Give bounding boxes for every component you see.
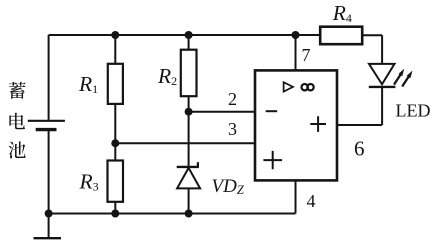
battery GB long plate (+) bbox=[28, 120, 65, 122]
wire zener anode lead bbox=[188, 188, 190, 213]
ground bar bbox=[34, 237, 62, 239]
label battery char xu bbox=[9, 82, 26, 99]
wire bottom rail bbox=[49, 213, 296, 215]
svg-text:R3: R3 bbox=[79, 170, 99, 194]
wire pin 3 input bbox=[115, 142, 255, 144]
wire top rail bbox=[49, 34, 321, 36]
svg-text:2: 2 bbox=[228, 89, 237, 109]
wire pin 2 input bbox=[189, 111, 255, 113]
wire LED anode lead bbox=[381, 35, 383, 64]
label battery char dian bbox=[9, 113, 25, 130]
wire LED cathode to output bbox=[381, 87, 383, 125]
zener VDz cathode tick bbox=[197, 162, 199, 167]
wire R1 top lead bbox=[114, 35, 116, 64]
LED light arrow 2 bbox=[402, 76, 409, 86]
node bottom zener bbox=[185, 210, 193, 218]
wire battery negative lead bbox=[48, 131, 50, 214]
svg-text:7: 7 bbox=[302, 45, 311, 65]
battery GB short plate (-) bbox=[36, 128, 57, 131]
svg-text:R2: R2 bbox=[157, 64, 177, 88]
svg-text:R1: R1 bbox=[78, 72, 98, 96]
svg-text:3: 3 bbox=[228, 119, 237, 139]
wire R3 top lead bbox=[114, 143, 116, 160]
resistor R1 bbox=[108, 64, 123, 104]
node R1/R3/pin3 bbox=[111, 139, 119, 147]
svg-text:VDZ: VDZ bbox=[212, 176, 245, 197]
zener VDz cathode bar bbox=[177, 166, 199, 168]
svg-text:4: 4 bbox=[307, 191, 316, 211]
LED light arrow 1 bbox=[394, 75, 401, 85]
resistor R4 bbox=[320, 27, 362, 45]
wire R2 bottom lead to node bbox=[188, 96, 190, 112]
node bottom battery/ground bbox=[45, 210, 53, 218]
ground stub bbox=[48, 214, 50, 238]
wire R1 bottom lead to node bbox=[114, 104, 116, 143]
node R2/pin2 bbox=[185, 108, 193, 116]
LED cathode bar bbox=[369, 86, 396, 88]
node top pin7 bbox=[292, 31, 300, 39]
svg-text:6: 6 bbox=[354, 137, 365, 161]
svg-text:R4: R4 bbox=[332, 1, 352, 25]
op-amp plus output symbol bbox=[310, 116, 326, 132]
wire R3 bottom lead bbox=[114, 202, 116, 214]
op-amp U1 box bbox=[255, 70, 337, 180]
op-amp infinity symbol bbox=[302, 84, 308, 90]
op-amp plus input symbol bbox=[263, 151, 282, 169]
zener VDz triangle bbox=[177, 168, 200, 189]
wire node to zener VDz bbox=[188, 112, 190, 167]
op-amp minus input symbol bbox=[266, 110, 278, 112]
wire pin 6 output bbox=[337, 124, 382, 126]
wire R2 top lead bbox=[188, 35, 190, 50]
LED triangle bbox=[369, 64, 395, 84]
node top R2 bbox=[185, 31, 193, 39]
node bottom R3 bbox=[111, 210, 119, 218]
resistor R2 bbox=[181, 50, 197, 96]
wire battery positive lead bbox=[48, 35, 50, 120]
op-amp gain triangle symbol bbox=[284, 82, 293, 91]
node top R1 bbox=[111, 31, 119, 39]
wire pin 7 supply bbox=[295, 35, 297, 70]
wire R4 right lead bbox=[362, 34, 382, 36]
svg-text:LED: LED bbox=[396, 101, 431, 121]
wire pin 4 to bottom rail bbox=[295, 180, 297, 213]
resistor R3 bbox=[108, 161, 124, 202]
label battery char chi bbox=[9, 141, 26, 158]
